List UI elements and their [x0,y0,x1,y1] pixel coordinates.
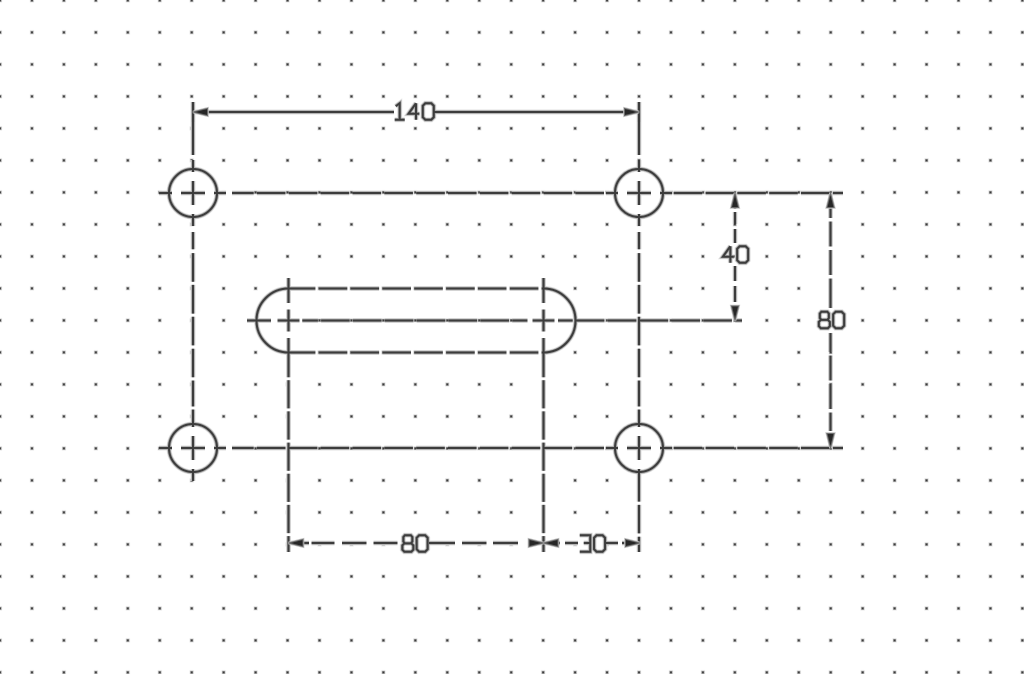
center mark cross bottom-left hole [181,436,205,460]
mid: center line vertical right (through right holes, extension for 30 dim) [637,102,641,552]
mid: dimension 80 bottom line (dashed) [289,541,544,545]
halo: arrow 30 right [626,539,641,546]
center mark cross top-left hole [181,181,205,205]
arrow 40 bottom [731,306,738,321]
mid: center mark cross bottom-right hole [627,436,651,460]
arrow 80 bottom left [289,539,304,546]
halo: dimension 80 bottom line (dashed) [289,541,544,546]
hole circle top-right [615,169,663,217]
center mark cross bottom-right hole [627,436,651,460]
halo: arrow 140 right [625,108,640,115]
halo: center line horizontal top (through upper holes) [159,191,843,196]
halo: arrow 140 left [193,108,208,115]
center mark cross top-right hole [627,181,651,205]
halo: center mark cross slot right arc [533,310,555,332]
halo: arrow 40 top [731,193,738,208]
slot top edge [289,288,544,290]
mid: dimension text 40 [723,246,748,263]
mid: dimension text 30 [580,535,605,552]
slot left arc [257,289,289,353]
mid: center line horizontal bottom (through lower holes) [159,446,843,450]
halo: extension line vertical slot left end [286,278,291,552]
mid: center line vertical left (through left holes) [191,102,195,481]
arrow 140 right [625,108,640,115]
dimension 40 line (dashed) [734,193,736,321]
halo: center mark cross top-right hole [627,181,651,205]
arrow 80 right bottom [827,434,834,449]
arrow 140 left [193,108,208,115]
mid: extension line vertical slot left end [287,278,291,552]
mid: center mark cross slot left arc [278,310,300,332]
hole circle top-left [169,169,217,217]
mid: dimension text 80 right [819,312,844,329]
mid: dimension 140 extension overshoots [193,102,639,122]
halo: dimension text 40 [723,246,748,263]
extension line vertical slot right end [543,278,545,552]
mid: hole circle top-right [615,169,663,217]
halo: center mark cross bottom-left hole [181,436,205,460]
slot right arc [544,289,576,353]
halo: arrow 80 bottom left [289,539,304,546]
mid: center line horizontal top (through upper holes) [159,191,843,195]
halo: dimension text 140 [395,103,434,120]
dimension text 80 right [819,312,844,329]
halo: center line vertical right (through right holes, extension for 30 dim) [637,102,642,552]
dimension text 140 [395,103,434,120]
dimension 80 right line (dashed) [830,193,832,448]
halo: arrow 30 left [544,539,559,546]
extension line vertical slot left end [288,278,290,552]
halo: arrow 80 right bottom [827,434,834,449]
halo: hole circle top-right [615,169,663,217]
mid: center mark cross top-right hole [627,181,651,205]
mid: slot right arc [544,289,576,353]
center line horizontal top (through upper holes) [159,192,843,194]
mid: center line horizontal slot axis [247,319,742,323]
dimension 80 bottom line (dashed) [289,542,544,544]
mid: dimension 40 line (dashed) [733,193,737,321]
mid: center mark cross bottom-left hole [181,436,205,460]
mid: hole circle bottom-right [615,424,663,472]
mid: slot left arc [257,289,289,353]
mid: center mark cross top-left hole [181,181,205,205]
halo: arrow 80 bottom right [529,539,544,546]
center line horizontal slot axis [247,320,742,322]
halo: hole circle bottom-left [169,424,217,472]
dimension 140 line [193,111,639,113]
mid: dimension 30 bottom line (dashed) [544,541,641,545]
halo: dimension 30 bottom line (dashed) [544,541,641,546]
halo: slot bottom edge [289,350,544,355]
mid: dimension text 140 [395,103,434,120]
halo: dimension 80 right line (dashed) [828,193,833,448]
halo: arrow 80 right top [827,193,834,208]
mid: dimension 140 line [193,110,639,114]
mid: slot top edge [289,287,544,291]
halo: dimension 40 line (dashed) [733,193,738,321]
center mark cross slot right arc [533,310,555,332]
dimension 30 bottom line (dashed) [544,542,641,544]
dimension text 80 bottom [402,535,427,552]
center mark cross slot left arc [278,310,300,332]
halo: center mark cross top-left hole [181,181,205,205]
halo: slot top edge [289,286,544,291]
halo: dimension 140 extension overshoots [193,102,639,122]
halo: extension line vertical slot right end [541,278,546,552]
center line horizontal bottom (through lower holes) [159,447,843,449]
mid: dimension text 80 bottom [402,535,427,552]
mid: hole circle top-left [169,169,217,217]
halo: slot left arc [257,289,289,353]
hole circle bottom-right [615,424,663,472]
arrow 80 bottom right [529,539,544,546]
arrow 80 right top [827,193,834,208]
mid: dimension 80 right line (dashed) [829,193,833,448]
hole circle bottom-left [169,424,217,472]
mid: center mark cross slot right arc [533,310,555,332]
halo: center line horizontal bottom (through lower holes) [159,446,843,451]
halo: hole circle top-left [169,169,217,217]
halo: dimension 140 line [193,110,639,115]
halo: dimension text 30 [580,535,605,552]
dimension 140 extension overshoots [193,102,639,122]
halo: center mark cross slot left arc [278,310,300,332]
halo: arrow 40 bottom [731,306,738,321]
arrowheads [193,108,834,546]
mid: slot bottom edge [289,351,544,355]
mid: hole circle bottom-left [169,424,217,472]
dimension text 40 [723,246,748,263]
arrow 30 left [544,539,559,546]
center line vertical right (through right holes, extension for 30 dim) [638,102,640,552]
mid: extension line vertical slot right end [542,278,546,552]
dimension text 30 [580,535,605,552]
halo: dimension text 80 right [819,312,844,329]
halo: center line vertical left (through left holes) [191,102,196,481]
halo: dimension text 80 bottom [402,535,427,552]
center line vertical left (through left holes) [192,102,194,481]
halo: hole circle bottom-right [615,424,663,472]
arrow 30 right [626,539,641,546]
slot bottom edge [289,352,544,354]
halo: slot right arc [544,289,576,353]
halo: center mark cross bottom-right hole [627,436,651,460]
arrow 40 top [731,193,738,208]
halo: center line horizontal slot axis [247,318,742,323]
